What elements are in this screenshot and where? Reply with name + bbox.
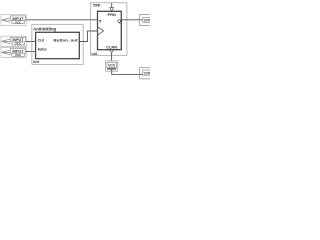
flip-flop TFF body [98,11,122,49]
svg-text:Button_out: Button_out [54,38,79,42]
wire input1 to TFF T pin [26,19,97,21]
svg-text:PRN: PRN [107,12,116,17]
svg-text:T: T [99,19,102,24]
svg-text:Q: Q [117,19,121,24]
input pin 1 (INPUT/VCC) [1,15,26,26]
svg-text:CLK: CLK [38,38,45,42]
wire CLRN to VCC constant [111,53,113,61]
PRN pin stub [111,3,113,8]
wire input2 to CLK pin [26,41,35,43]
svg-text:VCC: VCC [15,42,22,46]
svg-text:Antitinkling: Antitinkling [33,27,56,32]
svg-text:VCC: VCC [108,64,116,68]
input pin 2 (INPUT/VCC) [1,36,26,46]
svg-text:inst3: inst3 [92,52,98,56]
svg-text:TFF: TFF [93,3,101,8]
module Antitinkling body [36,32,80,58]
svg-text:OUTPUT: OUTPUT [144,19,150,23]
wire TFF Q to output 1 [121,19,143,21]
svg-text:OUTPUT: OUTPUT [144,71,150,75]
VCC constant text box [107,62,117,67]
output pin 1 (OUTPUT) [140,14,154,25]
VCC constant symbol outer box [106,61,118,71]
output pin 2 (OUTPUT) [140,68,154,79]
input pin 3 (INPUT/VCC) [1,47,26,57]
svg-text:VCC: VCC [15,53,22,57]
CLRN active-low triangle [110,50,114,53]
svg-text:inst: inst [33,60,40,64]
svg-text:Button: Button [38,47,47,51]
module Antitinkling outer box [32,24,83,64]
VCC constant bar [107,68,116,70]
clock chevron [98,27,104,35]
wire Button_out to TFF clock [79,31,97,42]
svg-text:VCC: VCC [15,20,22,24]
svg-text:CLRN: CLRN [106,45,117,50]
PRN active-low triangle [110,8,114,12]
wire VCC to output 2 [112,69,143,74]
wire input3 to Button pin [26,51,35,53]
flip-flop TFF outer box [90,3,127,56]
